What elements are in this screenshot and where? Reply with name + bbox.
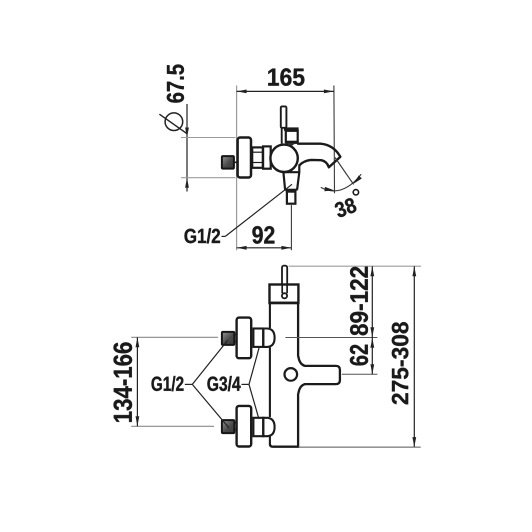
dimension 67.5: rotated label	[167, 65, 184, 103]
main column	[270, 302, 299, 447]
G1/2 leader line	[225, 184, 292, 236]
diameter slash leader	[159, 114, 187, 134]
dimension 134-166: line	[136, 337, 138, 426]
label 38	[335, 198, 356, 217]
column bottom edge	[270, 444, 299, 447]
spout stub (front view)	[298, 356, 340, 394]
lower union: domed cap	[263, 418, 274, 436]
thread block	[252, 147, 263, 167]
G3/4 leader to lower nut	[249, 384, 258, 417]
diameter symbol	[165, 113, 183, 131]
dimension 67.5: bottom extension line	[181, 177, 236, 179]
diverter step edge	[285, 189, 298, 191]
dimension 165: left arrow	[237, 90, 247, 94]
dimension 67.5: vertical line	[186, 104, 188, 192]
dimension 89-122: bottom arrow	[370, 327, 374, 337]
label G1/2 (bottom view)	[152, 376, 184, 391]
upper union: thread tick 1	[234, 334, 236, 336]
diverter body right side	[297, 165, 299, 190]
column right edge lower	[297, 394, 299, 446]
lower union: thread tick 1	[234, 422, 236, 424]
diverter neck right	[295, 190, 297, 192]
dimension 67.5: top arrow (outside, points down)	[185, 128, 189, 138]
38° dimension arc	[321, 174, 361, 191]
upper union: wall nipple (dark square)	[222, 332, 234, 345]
38° arrow at slanted line	[353, 175, 362, 184]
dimension 62: bottom arrow	[370, 364, 374, 374]
lower union: cap left edge	[262, 418, 264, 436]
block bottom divider	[269, 302, 300, 305]
column left edge upper	[269, 302, 271, 328]
wire: upper inlet axis extension (left, gray)	[131, 336, 218, 338]
wire: spout-tip extension line (right ext of 165, ref line of 38°)	[333, 86, 336, 194]
label G1/2 (top view)	[185, 228, 221, 243]
dimension 89-122 and 62: shared vertical line	[371, 266, 373, 374]
lever rod lower extension	[281, 128, 283, 144]
wire: upper inlet axis extension (right)	[285, 337, 377, 339]
diverter top edge	[283, 171, 299, 173]
wall nipple (dark square)	[222, 156, 234, 169]
upper union: nut	[253, 329, 263, 347]
dimension 165: right arrow	[324, 90, 334, 94]
lever hub bar	[284, 127, 299, 130]
dimension 165: label	[268, 68, 304, 86]
G3/4 leader dash	[242, 383, 250, 385]
lower union: wall nipple (dark square)	[222, 420, 234, 433]
lower union: nut	[253, 418, 263, 436]
G1/2 leader to lower nipple	[192, 384, 229, 428]
dimension 275-308: bottom arrow	[412, 437, 416, 447]
dimension 62: label	[350, 345, 368, 366]
dimension 92: left arrow	[237, 246, 247, 250]
shadow wedge under cap	[289, 144, 295, 146]
column left edge lower	[269, 436, 271, 445]
dimension 92: right arrow	[281, 246, 291, 250]
wire: bottom extension line (column bottom)	[299, 446, 421, 448]
dimension 134-166: bottom arrow	[136, 416, 140, 426]
lever ball	[282, 293, 287, 298]
cartridge cap	[286, 131, 298, 142]
dimension 67.5: top extension line	[181, 137, 236, 139]
dimension 92: label	[252, 226, 274, 244]
38° reference line (outlet axis)	[335, 158, 354, 185]
upper union: cap left edge	[262, 329, 264, 347]
dimension 275-308: label	[392, 322, 409, 404]
diverter neck left	[286, 190, 288, 192]
dimension 89-122: label	[350, 267, 368, 336]
wire: spout axis leader for 62	[342, 373, 378, 375]
diverter body left side	[283, 172, 285, 190]
wire: top extension line (lever top) for 89-122 and 275-308	[289, 265, 421, 267]
lever slot left line	[281, 285, 283, 294]
spout (side view)	[297, 144, 340, 168]
column right edge upper	[297, 302, 299, 357]
lever rod (front, end-on)	[282, 266, 287, 286]
dimension 134-166: label	[114, 342, 133, 422]
label G3/4 (bottom view)	[207, 376, 240, 391]
dimension 165: line	[237, 90, 334, 92]
dimension 92: line	[237, 247, 292, 249]
lever slot right line	[286, 285, 288, 294]
degree symbol	[353, 190, 358, 195]
dimension 134-166: top arrow	[136, 338, 140, 348]
upper union: domed cap	[263, 329, 274, 347]
thread line 1	[252, 151, 263, 153]
38° arrow at vertical line	[324, 187, 334, 191]
lower union: thread tick 2	[234, 429, 236, 431]
dimension 89-122: top arrow	[370, 266, 374, 276]
union connector between thread and body	[263, 146, 271, 168]
G1/2 leader dash	[222, 235, 226, 237]
wire: wall-plane extension line (left ext of 165 and 92)	[236, 86, 238, 251]
G1/2 leader to upper nipple	[192, 341, 227, 385]
lever rod	[281, 106, 287, 127]
upper union: thread tick 2	[234, 340, 236, 342]
lower union: escutcheon	[237, 406, 252, 447]
dimension 92: right extension line (diverter axis)	[290, 205, 292, 250]
column left edge middle	[269, 347, 271, 417]
body circle	[270, 145, 297, 172]
nipple stub line	[234, 161, 238, 163]
cartridge block (top of column)	[270, 285, 299, 303]
cartridge cap base bar	[285, 142, 298, 144]
thread line 2	[252, 162, 263, 164]
dimension 67.5: bottom arrow (outside, points up)	[185, 178, 189, 188]
wire: lower inlet axis extension (left, gray)	[131, 425, 214, 427]
G3/4 leader to upper nut	[249, 346, 260, 384]
G1/2 leader dash	[185, 383, 193, 385]
upper union: escutcheon	[237, 318, 252, 359]
dimension 275-308: line	[413, 266, 415, 447]
diverter knob circle	[285, 368, 298, 381]
dimension 275-308: top arrow	[412, 266, 416, 276]
wall flange (escutcheon side view)	[238, 138, 251, 178]
dimension 62: top arrow	[370, 338, 374, 348]
diverter outlet (hand-shower connector)	[287, 192, 296, 204]
